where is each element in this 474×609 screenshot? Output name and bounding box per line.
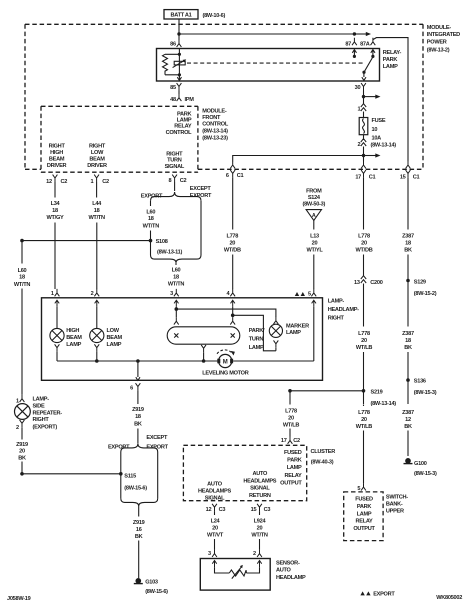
svg-text:WT/TN: WT/TN bbox=[143, 224, 160, 230]
svg-text:PARK: PARK bbox=[357, 504, 372, 510]
pin 85 bbox=[170, 83, 181, 94]
wire L13 to pin 5 bbox=[313, 255, 315, 290]
wire L60 repeater lower bbox=[21, 289, 23, 395]
svg-text:BANK-: BANK- bbox=[386, 501, 403, 507]
svg-text:L778: L778 bbox=[226, 233, 238, 239]
svg-text:L60: L60 bbox=[18, 268, 27, 274]
wire L778 from 17 C1 upper bbox=[363, 177, 365, 229]
svg-text:LAMP-: LAMP- bbox=[33, 397, 50, 403]
park filament fork bbox=[174, 317, 179, 324]
svg-text:HEADLAMPS: HEADLAMPS bbox=[198, 488, 231, 494]
cluster auto headlamps signal return label bbox=[243, 471, 276, 499]
svg-text:(EXPORT): (EXPORT) bbox=[33, 425, 58, 431]
svg-text:WT/TN: WT/TN bbox=[14, 282, 31, 288]
svg-text:C3: C3 bbox=[219, 507, 226, 513]
svg-text:86: 86 bbox=[170, 41, 176, 47]
pin 1 C2 bbox=[91, 175, 109, 186]
marker lamp bottom fork bbox=[274, 340, 279, 350]
IPM right high beam driver label bbox=[47, 144, 67, 170]
wire to S136 bbox=[407, 352, 409, 404]
svg-text:20: 20 bbox=[312, 240, 318, 246]
pin 12 C2 bbox=[46, 175, 67, 186]
svg-text:LAMP: LAMP bbox=[66, 342, 81, 348]
svg-text:L24: L24 bbox=[211, 518, 221, 524]
svg-text:WT/VT: WT/VT bbox=[207, 533, 224, 539]
wire to pin 5 switch bank bbox=[363, 431, 365, 484]
wire L24 lower bbox=[214, 539, 216, 550]
label Z387 12 BK (lower) bbox=[402, 410, 414, 430]
wire repeater to S115 bbox=[21, 462, 23, 474]
label Z919 16 BK bbox=[133, 520, 145, 540]
svg-text:L778: L778 bbox=[285, 408, 297, 414]
ground merge brace bbox=[121, 498, 158, 506]
svg-text:LAMP: LAMP bbox=[249, 345, 264, 351]
label L778 20 WT/DB (right) bbox=[356, 233, 373, 253]
svg-text:WT/LB: WT/LB bbox=[356, 345, 373, 351]
label L60 18 WT/TN (merged) bbox=[168, 268, 185, 288]
svg-text:C1: C1 bbox=[413, 175, 420, 181]
node park/turn ground bbox=[202, 359, 206, 363]
relay coil symbol bbox=[173, 59, 187, 67]
pin 2 headlamp bbox=[91, 289, 100, 297]
low beam ground fork bbox=[94, 344, 99, 361]
IPM module-front control name bbox=[202, 108, 229, 141]
pin 15 C1 bbox=[400, 161, 420, 181]
svg-text:15: 15 bbox=[251, 507, 257, 513]
svg-text:WT/TN: WT/TN bbox=[251, 533, 268, 539]
svg-text:WT/TN: WT/TN bbox=[168, 282, 185, 288]
wire L60 repeater upper bbox=[21, 241, 23, 264]
svg-text:12: 12 bbox=[206, 507, 212, 513]
svg-text:UPPER: UPPER bbox=[386, 508, 404, 514]
svg-text:13: 13 bbox=[354, 280, 360, 286]
svg-text:(8W-50-3): (8W-50-3) bbox=[303, 201, 326, 207]
wire pin5 down bbox=[313, 307, 315, 361]
wire L44 upper bbox=[96, 182, 98, 198]
svg-text:Z387: Z387 bbox=[402, 331, 414, 337]
wire S108 tap to repeater bbox=[22, 240, 151, 242]
svg-text:3: 3 bbox=[170, 291, 173, 297]
relay contact 87A stub bbox=[371, 50, 375, 58]
svg-text:AUTO: AUTO bbox=[207, 481, 223, 487]
svg-text:RELAY: RELAY bbox=[355, 519, 373, 525]
ground G103 bbox=[134, 579, 168, 596]
wire to S129 bbox=[407, 255, 409, 327]
svg-text:HEADLAMPS: HEADLAMPS bbox=[243, 478, 276, 484]
svg-text:J058W-19: J058W-19 bbox=[7, 596, 31, 602]
park/turn lamp label bbox=[249, 328, 265, 351]
pin 17 C1 bbox=[355, 161, 375, 181]
relay contact 87 stub bbox=[352, 50, 356, 58]
label Z919 20 BK (repeater) bbox=[16, 442, 28, 462]
wire L924 lower bbox=[259, 539, 261, 550]
svg-text:30: 30 bbox=[355, 85, 361, 91]
wire batt A1 down bbox=[178, 19, 180, 40]
sensor box bbox=[200, 559, 270, 591]
wire repeater tap to S115 bbox=[22, 473, 121, 475]
svg-text:C1: C1 bbox=[237, 173, 244, 179]
svg-text:WT/TN: WT/TN bbox=[88, 215, 105, 221]
module-integrated power label bbox=[427, 25, 460, 54]
svg-text:PARK: PARK bbox=[287, 458, 302, 464]
sensor name bbox=[276, 560, 306, 580]
svg-text:5: 5 bbox=[308, 291, 311, 297]
label Z919 18 BK (pin6) bbox=[132, 407, 144, 427]
svg-text:87A: 87A bbox=[360, 41, 370, 47]
wire C200 to label bbox=[363, 284, 365, 327]
svg-text:BEAM: BEAM bbox=[49, 157, 65, 163]
svg-text:HEADLAMP: HEADLAMP bbox=[276, 575, 306, 581]
svg-text:16: 16 bbox=[136, 527, 142, 533]
svg-text:EXCEPT: EXCEPT bbox=[146, 435, 168, 441]
splice S108 bbox=[149, 239, 183, 256]
wire L44 lower bbox=[96, 223, 98, 290]
svg-text:M: M bbox=[223, 359, 228, 365]
label L13 20 WT/YL bbox=[307, 233, 324, 253]
svg-text:TURN: TURN bbox=[167, 158, 182, 164]
wire to C200 bbox=[363, 255, 365, 276]
svg-text:PARK: PARK bbox=[177, 111, 192, 117]
svg-text:C2: C2 bbox=[180, 178, 187, 184]
pin 6 headlamp bbox=[130, 383, 140, 404]
svg-text:FUSED: FUSED bbox=[355, 497, 373, 503]
svg-text:L44: L44 bbox=[92, 201, 102, 207]
svg-text:FROM: FROM bbox=[306, 189, 322, 195]
svg-text:C3: C3 bbox=[264, 507, 271, 513]
fuse labels bbox=[371, 118, 397, 149]
wire pin3 down bbox=[175, 307, 177, 317]
wire pin6 to split bbox=[137, 429, 139, 444]
svg-text:CLUSTER: CLUSTER bbox=[311, 449, 336, 455]
wire L24 upper bbox=[214, 511, 216, 515]
svg-text:BEAM: BEAM bbox=[66, 335, 82, 341]
pin 85 stub inside bbox=[177, 75, 181, 81]
svg-text:L34: L34 bbox=[51, 201, 61, 207]
svg-text:15: 15 bbox=[400, 175, 406, 181]
node 30 junction bbox=[362, 95, 365, 98]
wire L778 to pin 4 bbox=[232, 255, 234, 290]
svg-text:RIGHT: RIGHT bbox=[33, 417, 50, 423]
cluster box (dashed) bbox=[183, 445, 306, 500]
wire export branch lower bbox=[150, 231, 152, 256]
high beam lamp bbox=[50, 328, 82, 348]
svg-text:S219: S219 bbox=[371, 389, 383, 395]
svg-text:POWER: POWER bbox=[427, 39, 447, 45]
svg-text:18: 18 bbox=[52, 208, 58, 214]
svg-text:(8W-40-3): (8W-40-3) bbox=[311, 459, 334, 465]
leveling motor bbox=[217, 354, 233, 367]
svg-text:CONTROL: CONTROL bbox=[202, 121, 229, 127]
label except export (ground) bbox=[146, 435, 168, 450]
svg-text:RELAY: RELAY bbox=[174, 124, 192, 130]
svg-text:DRIVER: DRIVER bbox=[87, 163, 107, 169]
ground bus wire bbox=[57, 360, 219, 362]
svg-text:20: 20 bbox=[361, 338, 367, 344]
svg-text:SIGNAL: SIGNAL bbox=[250, 486, 270, 492]
svg-text:BEAM: BEAM bbox=[89, 157, 105, 163]
svg-text:EXPORT: EXPORT bbox=[373, 591, 395, 597]
svg-text:Z919: Z919 bbox=[133, 520, 145, 526]
label L60 18 WT/TN (repeater) bbox=[14, 268, 31, 288]
svg-text:A: A bbox=[312, 213, 316, 219]
connector 1 inline bbox=[357, 97, 366, 113]
svg-text:(8W-13-11): (8W-13-11) bbox=[157, 250, 182, 256]
svg-text:L60: L60 bbox=[146, 209, 155, 215]
svg-text:SENSOR-: SENSOR- bbox=[276, 560, 300, 566]
pin 5 headlamp with export marks bbox=[295, 289, 316, 298]
svg-text:2: 2 bbox=[253, 551, 256, 557]
svg-text:WT/DB: WT/DB bbox=[224, 247, 241, 253]
connector 2 inline bbox=[357, 135, 366, 148]
svg-text:LAMP: LAMP bbox=[357, 511, 372, 517]
svg-text:RIGHT: RIGHT bbox=[166, 151, 183, 157]
svg-text:Z919: Z919 bbox=[132, 407, 144, 413]
svg-text:SIDE: SIDE bbox=[33, 404, 45, 410]
svg-text:RIGHT: RIGHT bbox=[328, 316, 345, 322]
svg-text:20: 20 bbox=[361, 417, 367, 423]
svg-text:C2: C2 bbox=[102, 179, 109, 185]
svg-text:18: 18 bbox=[148, 216, 154, 222]
node repeater ground end bbox=[20, 472, 24, 476]
splice S129 bbox=[406, 279, 437, 297]
svg-text:(8W-10-6): (8W-10-6) bbox=[203, 13, 226, 19]
pin 1 headlamp bbox=[51, 289, 60, 297]
BATT A1 connector box bbox=[164, 10, 198, 19]
high beam ground fork bbox=[55, 344, 60, 361]
svg-text:(8W-15-6): (8W-15-6) bbox=[124, 485, 147, 491]
svg-text:OUTPUT: OUTPUT bbox=[280, 480, 302, 486]
node cluster branch corner bbox=[288, 389, 292, 393]
splice S219 bbox=[362, 389, 397, 407]
label Z387 18 BK (upper) bbox=[402, 233, 414, 253]
label L34 18 WT/GY bbox=[47, 201, 64, 221]
node coil bottom bbox=[178, 73, 181, 76]
svg-text:HEADLAMP-: HEADLAMP- bbox=[328, 307, 359, 313]
svg-text:INTEGRATED: INTEGRATED bbox=[427, 32, 460, 38]
switch bank box (dashed) bbox=[344, 492, 383, 541]
svg-text:12: 12 bbox=[46, 179, 52, 185]
wire merged ground lower bbox=[138, 541, 140, 579]
switch bank name bbox=[386, 495, 408, 515]
cluster fused park lamp relay output label bbox=[280, 450, 302, 486]
low beam lamp bbox=[90, 328, 123, 348]
svg-text:(8W-15-2): (8W-15-2) bbox=[414, 291, 437, 297]
pin 1 repeater bbox=[16, 395, 24, 405]
node batt junction bbox=[177, 32, 180, 35]
node pin4 junction bbox=[231, 314, 235, 318]
wire cluster feed down bbox=[289, 391, 291, 405]
wire merged ground upper bbox=[138, 506, 140, 517]
label L778 20 WT/LB (mid) bbox=[356, 331, 373, 351]
svg-text:EXPORT: EXPORT bbox=[141, 193, 163, 199]
svg-text:WK805002: WK805002 bbox=[436, 595, 462, 601]
node 87 junction bbox=[353, 32, 356, 35]
relay coil wire bbox=[178, 49, 180, 82]
svg-text:FUSED: FUSED bbox=[284, 450, 302, 456]
switch bank fused park lamp relay output label bbox=[353, 497, 375, 533]
svg-text:RIGHT: RIGHT bbox=[89, 144, 106, 150]
svg-text:18: 18 bbox=[173, 274, 179, 280]
cluster name bbox=[311, 449, 336, 466]
resistor in relay bbox=[163, 54, 180, 75]
svg-text:CONTROL: CONTROL bbox=[166, 130, 193, 136]
svg-text:LAMP: LAMP bbox=[287, 465, 302, 471]
svg-text:S136: S136 bbox=[414, 378, 426, 384]
svg-text:WT/YL: WT/YL bbox=[307, 247, 324, 253]
wire pin 8 down bbox=[174, 182, 176, 191]
pin 4 interior arrow bbox=[231, 300, 235, 307]
svg-text:2: 2 bbox=[16, 425, 19, 431]
pin 17 C2 cluster bbox=[281, 436, 300, 444]
svg-text:L13: L13 bbox=[310, 233, 319, 239]
pin 4 headlamp bbox=[227, 289, 236, 297]
wire pin6 exit bbox=[136, 361, 140, 380]
svg-text:EXCEPT: EXCEPT bbox=[190, 186, 212, 192]
park/turn ground fork bbox=[201, 345, 206, 361]
svg-text:LAMP: LAMP bbox=[177, 117, 192, 123]
svg-text:EXPORT: EXPORT bbox=[146, 444, 168, 450]
svg-text:1: 1 bbox=[16, 398, 19, 404]
svg-text:87: 87 bbox=[345, 41, 351, 47]
connector C200 pin 13 bbox=[354, 276, 383, 286]
wire pin2 to low beam bbox=[96, 307, 98, 329]
node pin3 junction bbox=[175, 307, 179, 311]
svg-text:SIGNAL: SIGNAL bbox=[165, 164, 185, 170]
svg-text:S115: S115 bbox=[124, 473, 136, 479]
svg-text:C1: C1 bbox=[369, 175, 376, 181]
svg-text:WT/LB: WT/LB bbox=[356, 424, 373, 430]
svg-text:(8W-13-14): (8W-13-14) bbox=[371, 143, 397, 149]
svg-text:BK: BK bbox=[404, 247, 412, 253]
turn filament fork bbox=[230, 317, 235, 324]
pin 3 interior arrow bbox=[212, 561, 229, 574]
svg-text:1: 1 bbox=[51, 291, 54, 297]
label Z387 18 BK (mid) bbox=[402, 331, 414, 351]
svg-text:18: 18 bbox=[405, 240, 411, 246]
svg-text:BATT A1: BATT A1 bbox=[170, 13, 191, 19]
pin 5 interior arrow bbox=[312, 300, 316, 307]
svg-text:18: 18 bbox=[94, 208, 100, 214]
wire pin3 to marker top bbox=[176, 309, 276, 317]
pin 12 C3 bbox=[206, 504, 226, 513]
svg-text:DRIVER: DRIVER bbox=[47, 163, 67, 169]
svg-text:RELAY-: RELAY- bbox=[383, 50, 402, 56]
svg-text:RETURN: RETURN bbox=[249, 493, 271, 499]
svg-text:L778: L778 bbox=[358, 410, 370, 416]
svg-text:WT/GY: WT/GY bbox=[47, 215, 64, 221]
ground G100 bbox=[404, 459, 437, 478]
svg-text:Z387: Z387 bbox=[402, 410, 414, 416]
wire to G100 bbox=[407, 431, 409, 457]
wire Z387 from 15 C1 upper bbox=[407, 177, 409, 229]
svg-text:20: 20 bbox=[361, 240, 367, 246]
svg-text:MARKER: MARKER bbox=[286, 324, 309, 330]
pin 48 IPM bbox=[170, 94, 194, 104]
pin 8 C2 bbox=[169, 175, 187, 185]
svg-text:(8W-13-2): (8W-13-2) bbox=[427, 47, 450, 53]
wire batt feed to pin 87 bbox=[179, 33, 354, 35]
wire fuse to pin 6 C1 bbox=[233, 156, 364, 162]
svg-text:(8W-15-6): (8W-15-6) bbox=[145, 589, 168, 595]
wire arrow out right top bbox=[354, 32, 371, 36]
svg-text:G103: G103 bbox=[145, 580, 158, 586]
svg-text:LAMP: LAMP bbox=[286, 330, 301, 336]
marker lamp bbox=[269, 324, 309, 338]
svg-text:FRONT: FRONT bbox=[202, 115, 221, 121]
pin 86 bbox=[170, 40, 181, 48]
pin 3 interior arrow bbox=[174, 300, 178, 307]
headlamp box bbox=[42, 298, 323, 381]
label L60 18 WT/TN (export branch) bbox=[143, 209, 160, 229]
sensor rheostat bbox=[229, 565, 246, 579]
node repeater tap bbox=[20, 239, 24, 243]
wire ground export branch bbox=[120, 452, 122, 498]
svg-text:PARK: PARK bbox=[383, 57, 398, 63]
svg-text:BK: BK bbox=[404, 345, 412, 351]
svg-text:IPM: IPM bbox=[185, 97, 195, 103]
svg-text:20: 20 bbox=[212, 525, 218, 531]
fuse 10 bbox=[359, 112, 368, 135]
node fuse out junction bbox=[362, 154, 365, 157]
headlamp box name bbox=[328, 299, 359, 322]
pin 30 bbox=[355, 83, 366, 91]
export merge brace bbox=[151, 255, 202, 263]
svg-text:MODULE-: MODULE- bbox=[427, 25, 452, 31]
svg-text:G100: G100 bbox=[414, 461, 427, 467]
pin 3 headlamp bbox=[170, 289, 179, 297]
wire L778 from 6 C1 upper bbox=[232, 177, 234, 229]
svg-text:18: 18 bbox=[135, 414, 141, 420]
svg-text:LAMP: LAMP bbox=[107, 342, 122, 348]
svg-text:2: 2 bbox=[91, 291, 94, 297]
svg-text:6: 6 bbox=[226, 173, 229, 179]
IPM right low beam driver label bbox=[87, 144, 107, 170]
svg-text:17: 17 bbox=[281, 438, 287, 444]
wire 30 down bbox=[363, 91, 365, 97]
svg-text:LOW: LOW bbox=[91, 150, 104, 156]
wire L13 upper bbox=[313, 220, 315, 229]
svg-text:BK: BK bbox=[135, 534, 143, 540]
wire pin4 down bbox=[232, 307, 234, 317]
wire pin1 to high beam bbox=[56, 307, 58, 329]
svg-text:3: 3 bbox=[208, 551, 211, 557]
wire L60 merged upper bbox=[175, 263, 177, 265]
svg-text:L778: L778 bbox=[358, 233, 370, 239]
svg-text:C2: C2 bbox=[61, 179, 68, 185]
svg-text:BEAM: BEAM bbox=[107, 335, 123, 341]
wire to pin 17 C2 bbox=[289, 429, 291, 437]
svg-text:LAMP-: LAMP- bbox=[328, 299, 345, 305]
svg-text:1: 1 bbox=[91, 179, 94, 185]
pin 2 sensor bbox=[253, 550, 262, 557]
svg-text:S124: S124 bbox=[308, 195, 321, 201]
svg-text:WT/DB: WT/DB bbox=[356, 247, 373, 253]
svg-text:(8W-13-14): (8W-13-14) bbox=[202, 128, 228, 134]
svg-text:PARK/: PARK/ bbox=[249, 328, 265, 334]
wire pin4 to marker bottom bbox=[233, 315, 276, 351]
wire ground except branch bbox=[157, 452, 159, 498]
label L44 18 WT/TN bbox=[88, 201, 105, 221]
cluster auto headlamps signal label bbox=[198, 481, 231, 501]
svg-text:AUTO: AUTO bbox=[252, 471, 268, 477]
wire arrow out right lower bbox=[364, 153, 381, 157]
svg-text:S108: S108 bbox=[156, 239, 168, 245]
svg-text:HIGH: HIGH bbox=[66, 328, 79, 334]
pin 5 switch bank bbox=[357, 483, 366, 492]
leveling motor dashed arc bbox=[217, 350, 235, 356]
wire fuse to junction bbox=[363, 147, 365, 156]
svg-text:(8W-15-3): (8W-15-3) bbox=[414, 390, 437, 396]
